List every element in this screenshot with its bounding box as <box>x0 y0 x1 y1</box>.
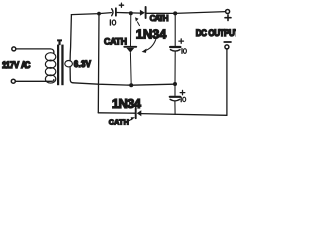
capacitor C2 bottom plate (curved) <box>170 50 180 52</box>
wire: middle rail (secondary bottom to cap stack midpoint) <box>73 83 173 85</box>
svg-text:CATH: CATH <box>109 117 129 126</box>
node: junction dot middle wire / cap stack <box>173 82 177 86</box>
node: junction dot on top rail at x=99 <box>97 12 101 16</box>
transformer T primary winding <box>45 53 55 83</box>
label: C3 polarity + <box>180 90 185 94</box>
wire J2 to transformer primary bottom <box>16 80 54 82</box>
node: junction dot on top rail at x=175 <box>173 11 177 15</box>
diode D3 triangle (pointing left) <box>137 110 142 116</box>
wire: riser x=175 from top rail to C2 <box>174 13 176 45</box>
terminal + DC OUTPUT <box>226 10 230 14</box>
node: junction dot on middle wire below D2 <box>129 83 133 87</box>
terminal J1 (117V AC top) <box>12 47 16 51</box>
svg-text:117V: 117V <box>2 60 19 71</box>
diode D1 1N34 (series, on top rail) anode triangle <box>140 10 145 16</box>
diode D2 triangle (pointing down) <box>126 48 134 53</box>
svg-text:DC OUTPUT: DC OUTPUT <box>196 27 236 38</box>
wire: bottom rail left segment (corner to D3 cathode bar) <box>98 112 135 114</box>
diode D2 1N34 (shunt) cathode bar (top) <box>124 46 136 48</box>
arrow from 1N34 label up-left to D1 <box>137 22 139 26</box>
arrow from CATH label to D3 cathode bar <box>128 119 132 121</box>
wire: riser between dot and C3 <box>174 84 176 96</box>
transformer T core laminations <box>57 45 64 86</box>
terminal J2 (117V AC bottom) <box>11 79 15 83</box>
label: C2 value 10 <box>181 49 183 54</box>
svg-text:1N34: 1N34 <box>136 27 167 42</box>
wire: top rail left segment (secondary top to C1) <box>71 13 111 15</box>
label: C3 value 10 <box>180 97 182 102</box>
capacitor C2 10uF top plate (straight) <box>170 46 180 48</box>
label: C2 polarity + <box>179 39 184 43</box>
svg-text:T: T <box>58 39 62 46</box>
wire: top rail middle segment (C1 to D1) <box>117 12 140 15</box>
wire: riser x=99 from top rail down to bottom-left corner <box>97 14 100 113</box>
diode D1 cathode bar <box>145 7 147 18</box>
svg-text:CATH: CATH <box>104 36 127 46</box>
node: junction dot at top of D2 riser <box>129 11 133 15</box>
svg-text:6.3V: 6.3V <box>74 59 92 70</box>
wire: riser from C3 down to bottom rail <box>174 101 176 114</box>
arrow from 1N34 label curving down-left to D2 <box>145 39 156 50</box>
label: C1 value 10 <box>109 20 111 25</box>
svg-text:CATH: CATH <box>150 14 169 23</box>
wire: riser between C2 and middle-wire dot <box>174 52 176 84</box>
wire: top rail right segment (D1 to + output) <box>147 12 226 14</box>
capacitor C3 10uF top plate (straight) <box>170 96 180 98</box>
capacitor C3 bottom plate (curved) <box>170 99 180 101</box>
label: - (output polarity) <box>224 41 231 43</box>
wire: riser below D2 down to middle wire <box>129 53 132 86</box>
wire J1 to transformer primary top <box>16 49 54 53</box>
capacitor C1 straight right plate <box>115 8 117 15</box>
wire: bottom rail right segment (D3 to - output riser) <box>141 114 227 116</box>
svg-text:AC: AC <box>21 60 31 71</box>
svg-text:1N34: 1N34 <box>112 96 142 111</box>
label: C1 polarity + <box>119 3 123 7</box>
wire: riser x=227 up to - output terminal <box>226 50 228 116</box>
wire: riser x=132 from top rail dot down to D2 <box>130 13 132 46</box>
transformer secondary winding (riser to top rail + pigtail loop + down to mid wire) <box>70 15 71 61</box>
capacitor C1 10uF (series, on top rail) : curved left plate <box>112 9 113 16</box>
label: + (output polarity) <box>225 15 231 21</box>
terminal - DC OUTPUT <box>225 45 229 49</box>
diode D3 1N34 (bottom rail) cathode bar <box>135 108 137 118</box>
